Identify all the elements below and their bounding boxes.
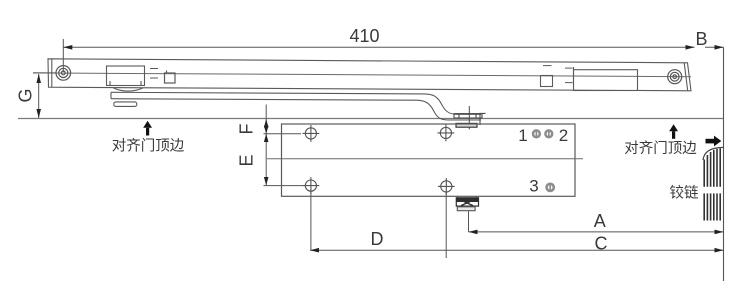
dim 410 extension line bbox=[62, 39, 64, 72]
svg-text:1: 1 bbox=[518, 126, 527, 145]
left alignment arrow bbox=[143, 121, 152, 136]
svg-text:A: A bbox=[594, 211, 606, 231]
dim 410 line bbox=[63, 46, 694, 48]
dim A arrows bbox=[469, 230, 478, 235]
dash above square bbox=[543, 65, 552, 67]
valve base bbox=[457, 207, 475, 211]
svg-text:对齐门顶边: 对齐门顶边 bbox=[112, 138, 185, 155]
right alignment arrow bbox=[669, 124, 678, 139]
body midline bbox=[267, 158, 583, 160]
svg-text:D: D bbox=[371, 229, 384, 249]
valve knob bbox=[456, 196, 478, 206]
door edge block arrow bbox=[706, 136, 722, 147]
hinge top curve bbox=[703, 147, 723, 160]
rail cover plate bbox=[574, 67, 638, 91]
rail end screw right bbox=[668, 70, 682, 84]
slider side marks bbox=[150, 69, 158, 79]
dim B line bbox=[705, 46, 724, 48]
mounting hole bottom-right bbox=[438, 178, 455, 195]
shoe screw axis bbox=[468, 106, 470, 130]
hole extension crossing C line bbox=[445, 192, 447, 258]
small square stop bbox=[165, 71, 176, 84]
hinge knuckle gap bbox=[703, 187, 723, 194]
dim B arrow bbox=[715, 45, 724, 50]
svg-text:2: 2 bbox=[559, 126, 568, 145]
hole extension to D line bbox=[310, 191, 312, 250]
dim G line bbox=[38, 74, 40, 118]
dim F arrows bbox=[264, 119, 269, 128]
svg-text:410: 410 bbox=[349, 26, 379, 46]
slider arc bbox=[114, 88, 144, 91]
rail midline bbox=[33, 73, 691, 77]
mounting hole top-left bbox=[303, 125, 320, 142]
svg-text:B: B bbox=[695, 29, 707, 49]
dim 410 arrows bbox=[63, 45, 72, 50]
shoe lower bar bbox=[456, 123, 477, 127]
dim A line bbox=[469, 231, 724, 233]
svg-text:F: F bbox=[237, 124, 257, 135]
rail right inner square bbox=[541, 76, 553, 87]
dim E arrows bbox=[264, 134, 269, 142]
mounting hole top-right bbox=[438, 125, 455, 142]
adjust screw 2 bbox=[545, 130, 552, 137]
svg-text:对齐门顶边: 对齐门顶边 bbox=[624, 140, 697, 157]
adjust screw 3 bbox=[547, 184, 554, 191]
hole row2 extension bbox=[264, 185, 304, 187]
slider block bbox=[107, 66, 145, 86]
joint dashes bbox=[565, 68, 573, 83]
arm plate below slider bbox=[114, 102, 137, 107]
closer body bbox=[282, 124, 576, 196]
arm shoe bar bbox=[454, 114, 482, 118]
hole row1 extension bbox=[264, 133, 302, 135]
adjust screw 1 bbox=[533, 130, 540, 137]
dim F/E line bbox=[265, 105, 267, 186]
mounting hole bottom-left bbox=[303, 177, 320, 194]
hinge hatching bbox=[704, 148, 720, 220]
arm end cap bbox=[480, 114, 482, 120]
svg-text:3: 3 bbox=[529, 176, 538, 195]
svg-text:G: G bbox=[16, 88, 36, 102]
valve extension line bbox=[468, 211, 470, 232]
svg-text:C: C bbox=[595, 234, 608, 254]
right reference vertical line bbox=[723, 47, 725, 281]
arm bottom edge bbox=[111, 99, 481, 120]
door top edge line bbox=[18, 118, 724, 120]
svg-text:E: E bbox=[237, 154, 257, 166]
shoe notch bbox=[480, 113, 486, 125]
dim D/C line bbox=[310, 249, 724, 251]
dim G arrows bbox=[36, 74, 41, 83]
slide rail outline bbox=[48, 59, 691, 91]
dim G extension line bbox=[33, 72, 56, 74]
svg-text:铰链: 铰链 bbox=[670, 184, 699, 202]
dim D arrows bbox=[310, 248, 319, 253]
rail end screw left bbox=[56, 66, 71, 81]
arm top edge bbox=[111, 92, 481, 114]
